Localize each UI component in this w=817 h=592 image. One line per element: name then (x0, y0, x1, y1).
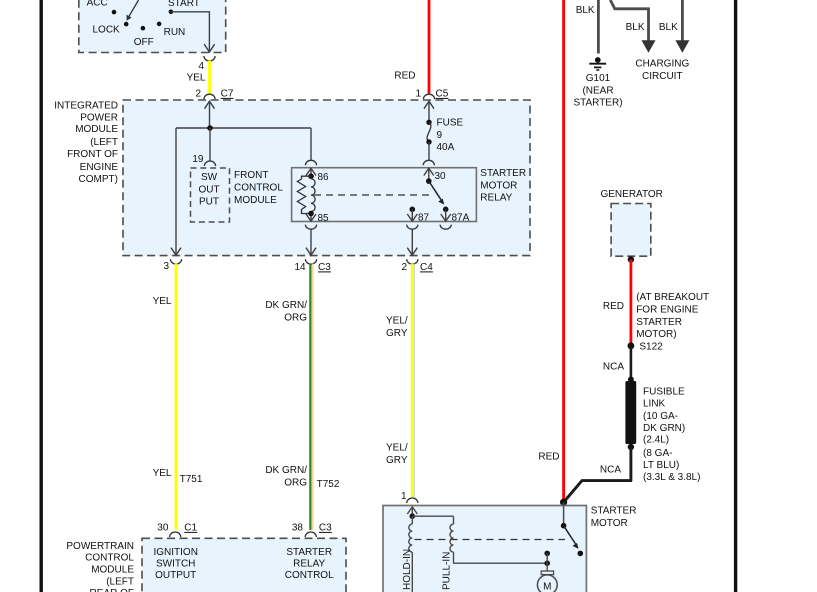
relay pin 86 arrow (306, 168, 329, 183)
svg-text:S122: S122 (639, 342, 663, 353)
breakout note (636, 292, 709, 340)
svg-text:(2.4L): (2.4L) (643, 435, 669, 446)
svg-text:LT BLU): LT BLU) (643, 460, 679, 471)
svg-text:DK GRN/: DK GRN/ (265, 465, 307, 476)
svg-text:FRONT OF: FRONT OF (67, 149, 118, 160)
svg-text:FUSIBLE: FUSIBLE (643, 387, 685, 398)
ignition switch contacts and labels (87, 0, 200, 48)
ground G101 (573, 57, 622, 109)
svg-text:MOTOR: MOTOR (480, 180, 517, 191)
relay pin 87A (441, 207, 470, 224)
svg-text:ENGINE: ENGINE (80, 162, 119, 173)
svg-text:IGNITION: IGNITION (153, 547, 197, 558)
svg-text:DK GRN/: DK GRN/ (265, 300, 307, 311)
wire to relay pin 86 (310, 128, 312, 161)
svg-text:3: 3 (163, 261, 169, 272)
starter mechanical link (415, 539, 566, 541)
svg-text:MODULE: MODULE (234, 195, 277, 206)
wire to FCM pin 19 (209, 128, 211, 162)
fusible link (625, 377, 700, 484)
svg-text:NCA: NCA (603, 362, 624, 373)
wire NCA fusible link to starter junction (564, 447, 631, 502)
starter motor relay box (292, 168, 477, 222)
starter switch (561, 502, 583, 556)
relay pin 85 arrow (306, 214, 316, 221)
svg-text:DK GRN): DK GRN) (643, 423, 685, 434)
svg-text:C4: C4 (420, 262, 433, 273)
wire fuse to relay pin 30 (428, 142, 430, 161)
svg-text:MODULE: MODULE (75, 124, 118, 135)
PCM pin labels (153, 547, 334, 581)
junction node starter B+ (560, 499, 567, 506)
svg-text:FUSE: FUSE (437, 118, 464, 129)
relay mechanical link (314, 194, 432, 196)
svg-text:RELAY: RELAY (480, 193, 512, 204)
motor M1 (537, 571, 557, 592)
wire DK GRN/ORG relay to PCM (265, 264, 340, 530)
svg-text:C7: C7 (221, 89, 234, 100)
starter motor box (383, 506, 586, 592)
svg-text:START: START (168, 0, 200, 9)
svg-text:(3.3L & 3.8L): (3.3L & 3.8L) (643, 472, 700, 483)
svg-text:85: 85 (318, 213, 330, 224)
svg-text:(LEFT: (LEFT (90, 137, 118, 148)
svg-text:ORG: ORG (284, 477, 307, 488)
left frame line (40, 0, 43, 592)
wire YEL/GRY relay 87 to starter (386, 264, 414, 498)
starter motor label (591, 506, 637, 529)
front control module label (234, 170, 283, 206)
svg-text:(8 GA-: (8 GA- (643, 448, 672, 459)
wire from START to pin 4 (171, 12, 215, 52)
hold-in coil (402, 513, 415, 592)
svg-text:FRONT: FRONT (234, 170, 268, 181)
starter pin 1 socket (401, 491, 418, 503)
generator output node (628, 256, 634, 262)
svg-text:T752: T752 (317, 479, 340, 490)
motor feed junction (544, 551, 550, 571)
svg-text:YEL: YEL (187, 73, 206, 84)
svg-text:G101: G101 (586, 73, 611, 84)
svg-text:SWITCH: SWITCH (156, 559, 195, 570)
wire NCA S122 to fusible link (603, 346, 631, 380)
svg-text:MODULE: MODULE (91, 565, 134, 576)
svg-text:(AT BREAKOUT: (AT BREAKOUT (636, 292, 709, 303)
wire BLK to ground (576, 0, 599, 54)
svg-text:NCA: NCA (600, 465, 621, 476)
wire 87 to pin 2 (407, 229, 417, 255)
svg-text:9: 9 (437, 130, 443, 141)
svg-text:2: 2 (195, 89, 201, 100)
integrated power module box (123, 100, 530, 256)
svg-text:COMPT): COMPT) (79, 174, 118, 185)
pin 2 socket C4 (401, 259, 433, 273)
svg-text:87A: 87A (452, 213, 470, 224)
wire BLK to charging circuit 2 (659, 0, 690, 53)
svg-text:OUTPUT: OUTPUT (155, 570, 196, 581)
svg-text:BLK: BLK (626, 22, 645, 33)
svg-text:CONTROL: CONTROL (285, 570, 334, 581)
pin 3 socket (163, 259, 181, 272)
svg-text:OFF: OFF (134, 37, 154, 48)
svg-text:M: M (543, 581, 551, 592)
svg-text:14: 14 (294, 262, 306, 273)
connector C5 pin 1 (415, 89, 448, 100)
svg-text:STARTER: STARTER (591, 506, 637, 517)
svg-text:1: 1 (415, 89, 421, 100)
svg-text:MOTOR): MOTOR) (636, 329, 676, 340)
pull-in coil (442, 516, 548, 590)
connector pin 4 socket (198, 56, 215, 72)
svg-text:GRY: GRY (386, 455, 408, 466)
svg-text:GENERATOR: GENERATOR (600, 189, 662, 200)
svg-text:C5: C5 (436, 89, 449, 100)
svg-text:YEL: YEL (153, 296, 172, 307)
svg-text:SW: SW (201, 172, 218, 183)
svg-text:OUT: OUT (198, 184, 219, 195)
svg-text:1: 1 (401, 491, 407, 502)
starter pin 1 arrow (407, 507, 417, 516)
svg-text:STARTER: STARTER (636, 317, 682, 328)
svg-text:86: 86 (318, 172, 330, 183)
svg-text:PUT: PUT (199, 197, 219, 208)
svg-text:HOLD-IN: HOLD-IN (402, 549, 413, 590)
svg-text:RELAY: RELAY (293, 559, 325, 570)
svg-text:(NEAR: (NEAR (582, 85, 613, 96)
svg-text:RED: RED (603, 301, 624, 312)
svg-text:FOR ENGINE: FOR ENGINE (636, 304, 699, 315)
svg-text:YEL: YEL (153, 468, 172, 479)
svg-text:19: 19 (192, 154, 204, 165)
svg-text:INTEGRATED: INTEGRATED (54, 101, 118, 112)
svg-text:(10 GA-: (10 GA- (643, 411, 678, 422)
charging circuit label (635, 59, 689, 82)
generator box (600, 189, 662, 256)
relay label (480, 168, 526, 204)
svg-text:RED: RED (538, 452, 559, 463)
svg-text:STARTER: STARTER (286, 547, 332, 558)
pin 14 socket C3 (294, 259, 331, 273)
svg-text:4: 4 (198, 61, 204, 72)
relay pin 87 (407, 207, 429, 224)
pin arrow below C5 (424, 101, 434, 121)
svg-text:C3: C3 (318, 262, 331, 273)
svg-text:RED: RED (394, 71, 415, 82)
wire BLK to charging circuit 1 (610, 0, 655, 53)
PCM pin 38 C3 (292, 523, 332, 538)
wire to pull-in coil (412, 515, 453, 517)
svg-text:ORG: ORG (284, 312, 307, 323)
svg-text:87: 87 (418, 213, 430, 224)
relay switch arm (429, 181, 445, 205)
wire to pin 3 (171, 128, 181, 255)
svg-text:CONTROL: CONTROL (234, 182, 283, 193)
svg-text:38: 38 (292, 523, 304, 534)
svg-text:MOTOR: MOTOR (591, 518, 628, 529)
wire 85 to pin 14 (306, 229, 316, 255)
relay pin 86 socket (305, 160, 316, 165)
wire RED generator feed (538, 0, 563, 502)
svg-text:(LEFT: (LEFT (106, 576, 134, 587)
IPM label (54, 101, 118, 185)
ignition switch box (79, 0, 226, 53)
pin arrow below C7 (205, 101, 215, 128)
front control module SW OUTPUT box (191, 168, 230, 222)
svg-text:LINK: LINK (643, 399, 666, 410)
splice S122 (628, 342, 664, 353)
wire YEL pin3 to PCM (153, 264, 203, 530)
svg-text:YEL/: YEL/ (386, 443, 408, 454)
wire YEL from ignition switch (187, 61, 210, 94)
relay coil (297, 176, 329, 224)
wire RED generator to S122 (603, 260, 631, 346)
svg-text:YEL/: YEL/ (386, 315, 408, 326)
junction node (207, 125, 213, 131)
svg-text:RUN: RUN (164, 27, 186, 38)
svg-text:STARTER: STARTER (480, 168, 526, 179)
pin 87 socket below box (407, 225, 418, 230)
svg-text:T751: T751 (180, 474, 203, 485)
pin 87A socket below box (440, 225, 451, 230)
relay pin 30 socket above box (423, 160, 434, 165)
connector C7 pin 2 (195, 89, 233, 100)
svg-text:REAR OF: REAR OF (90, 588, 134, 592)
svg-text:40A: 40A (437, 142, 455, 153)
ignition switch rotor arrow (127, 0, 139, 21)
PCM label (66, 541, 134, 592)
internal bus wire (176, 127, 311, 129)
svg-text:BLK: BLK (576, 5, 595, 16)
relay pin 85 socket below box (305, 225, 316, 230)
svg-text:CONTROL: CONTROL (85, 553, 134, 564)
svg-text:C1: C1 (184, 523, 197, 534)
right frame line (734, 0, 737, 592)
svg-text:PULL-IN: PULL-IN (442, 552, 453, 590)
svg-text:CIRCUIT: CIRCUIT (642, 71, 683, 82)
svg-text:30: 30 (435, 171, 447, 182)
svg-text:ACC: ACC (87, 0, 108, 9)
svg-text:POWER: POWER (80, 112, 118, 123)
svg-text:GRY: GRY (386, 328, 408, 339)
svg-text:POWERTRAIN: POWERTRAIN (66, 541, 134, 552)
svg-text:STARTER): STARTER) (573, 98, 622, 109)
pin 19 socket (192, 154, 215, 166)
relay pin 30 arrow (424, 168, 446, 184)
fuse 9 40A (426, 118, 463, 154)
wire RED battery feed (394, 0, 429, 94)
svg-text:BLK: BLK (659, 22, 678, 33)
svg-text:CHARGING: CHARGING (635, 59, 689, 70)
powertrain control module box (142, 538, 346, 592)
svg-text:30: 30 (157, 523, 169, 534)
PCM pin 30 C1 (157, 523, 197, 538)
svg-text:LOCK: LOCK (93, 24, 121, 35)
svg-text:2: 2 (401, 262, 407, 273)
svg-text:C3: C3 (319, 523, 332, 534)
